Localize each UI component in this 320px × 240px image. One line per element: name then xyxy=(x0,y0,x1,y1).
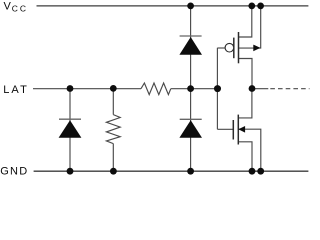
svg-text:GND: GND xyxy=(0,165,27,177)
svg-text:CC: CC xyxy=(12,4,26,14)
svg-text:V: V xyxy=(4,0,12,12)
svg-text:LAT: LAT xyxy=(3,84,27,96)
